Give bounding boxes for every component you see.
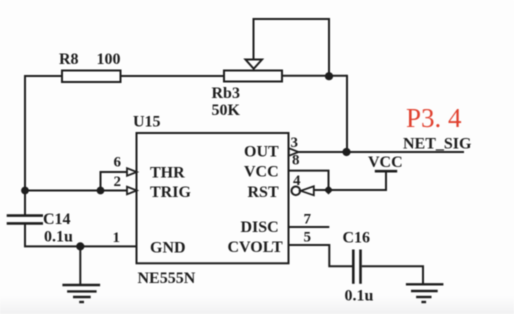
svg-text:TRIG: TRIG <box>150 184 191 201</box>
node THR/TRIG junction <box>97 187 105 195</box>
svg-text:RST: RST <box>248 184 279 201</box>
wire THR <box>101 171 128 173</box>
label Rb3 <box>212 85 240 102</box>
label VCC <box>368 154 403 171</box>
capacitor C14 <box>7 216 43 224</box>
svg-text:NE555N: NE555N <box>138 270 196 287</box>
label P3.4 <box>406 103 462 133</box>
node TRIG left junction <box>21 187 29 195</box>
pin label GND <box>150 240 186 257</box>
svg-text:6: 6 <box>114 155 122 171</box>
svg-text:0.1u: 0.1u <box>44 229 73 246</box>
node pin4/pin8 junction <box>324 185 333 194</box>
wire corner down to OUT net <box>346 75 348 152</box>
pin label OUT <box>244 144 279 161</box>
svg-text:DISC: DISC <box>241 219 279 236</box>
wire pin 7 DISC <box>290 226 330 228</box>
wire C16 to ground <box>362 266 423 284</box>
potentiometer Rb3 <box>224 60 282 82</box>
svg-text:C14: C14 <box>43 211 71 228</box>
wire pin 5 CVOLT <box>290 245 353 266</box>
pin label DISC <box>241 219 279 236</box>
pin 6 triangle THR <box>127 168 137 176</box>
svg-text:GND: GND <box>150 240 186 257</box>
wire pot to corner <box>282 75 347 77</box>
svg-text:Rb3: Rb3 <box>212 85 240 102</box>
value 0.1u <box>44 229 73 246</box>
pin number 6 <box>114 155 122 171</box>
pin 3 triangle OUT <box>289 148 299 156</box>
svg-text:NET_SIG: NET_SIG <box>403 136 472 153</box>
svg-text:8: 8 <box>292 153 300 169</box>
wire ground stub <box>79 246 81 285</box>
pin number 1 <box>113 230 121 246</box>
pin label RST <box>248 184 279 201</box>
svg-text:THR: THR <box>150 165 185 182</box>
pin number 8 <box>292 153 300 169</box>
pin number 3 <box>291 135 299 151</box>
value 100 <box>97 51 121 68</box>
svg-text:U15: U15 <box>133 114 161 131</box>
svg-text:R8: R8 <box>59 51 79 68</box>
svg-text:OUT: OUT <box>244 144 279 161</box>
wire <box>24 75 62 77</box>
svg-text:2: 2 <box>114 174 122 190</box>
svg-text:7: 7 <box>304 212 312 228</box>
svg-text:0.1u: 0.1u <box>345 288 374 305</box>
wire below C14 <box>25 225 137 247</box>
node GND junction <box>76 242 84 250</box>
capacitor C16 <box>353 250 360 284</box>
svg-text:100: 100 <box>97 51 121 68</box>
pin number 2 <box>114 174 122 190</box>
node pot output junction <box>325 72 333 80</box>
wire OUT net <box>299 151 465 153</box>
svg-text:P3. 4: P3. 4 <box>406 103 462 133</box>
wire pin 4 to VCC <box>314 171 386 190</box>
wire <box>24 76 26 215</box>
op-amp U1 : IC U15 box <box>137 133 289 263</box>
pin label TRIG <box>150 184 191 201</box>
pin label VCC <box>244 164 279 181</box>
value 50K <box>212 102 241 119</box>
wire THR stub vertical <box>100 171 102 191</box>
ground <box>62 285 100 302</box>
svg-text:C16: C16 <box>343 230 371 247</box>
net label NET_SIG <box>403 136 472 153</box>
pin 2 triangle TRIG <box>127 187 137 195</box>
svg-text:1: 1 <box>113 230 121 246</box>
label U15 <box>133 114 161 131</box>
ground <box>406 284 444 302</box>
svg-text:50K: 50K <box>212 102 241 119</box>
pin 4 RST bubble <box>292 187 301 196</box>
wire top loop <box>253 18 330 20</box>
wire pin 8 <box>290 171 329 190</box>
wire wiper up <box>253 19 255 61</box>
node OUT junction <box>342 148 350 156</box>
label C16 <box>343 230 371 247</box>
svg-text:CVOLT: CVOLT <box>228 239 283 256</box>
svg-text:4: 4 <box>293 173 301 189</box>
pin 4 RST triangle <box>301 186 314 195</box>
label C14 <box>43 211 71 228</box>
value 0.1u <box>345 288 374 305</box>
svg-text:3: 3 <box>291 135 299 151</box>
svg-text:VCC: VCC <box>368 154 403 171</box>
svg-text:5: 5 <box>304 230 312 246</box>
pin number 5 <box>304 230 312 246</box>
label R8 <box>59 51 79 68</box>
pin label CVOLT <box>228 239 283 256</box>
resistor R8 <box>62 71 121 83</box>
power VCC bar <box>375 170 397 173</box>
pin label THR <box>150 165 185 182</box>
wire TRIG <box>24 190 128 192</box>
svg-text:VCC: VCC <box>244 164 279 181</box>
wire loop right vertical <box>328 18 330 76</box>
pin number 4 <box>293 173 301 189</box>
pin number 7 <box>304 212 312 228</box>
label NE555N <box>138 270 196 287</box>
wire <box>121 75 225 77</box>
